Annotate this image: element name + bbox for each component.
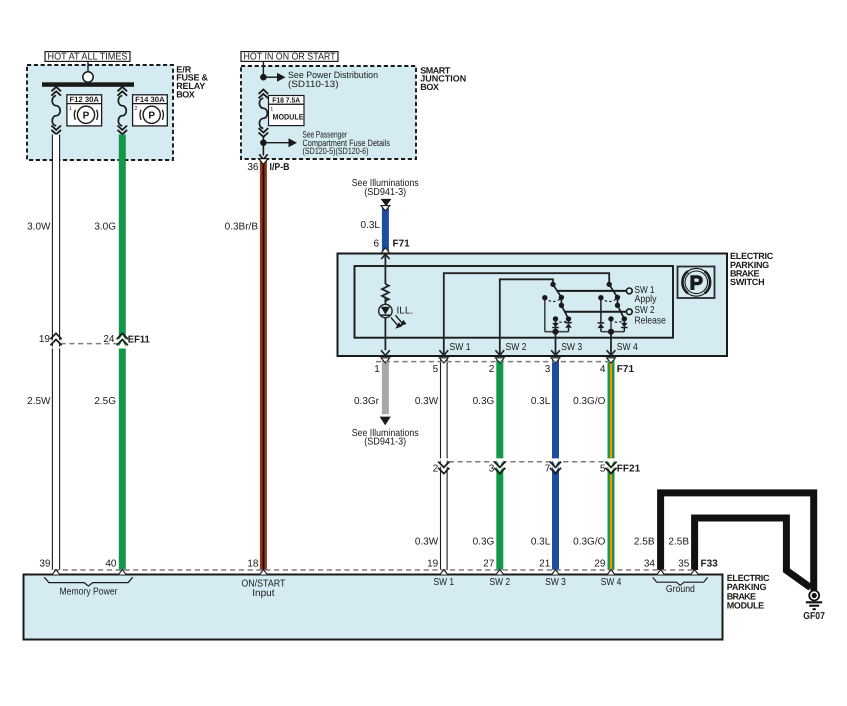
- svg-text:EF11: EF11: [128, 334, 150, 345]
- svg-text:29: 29: [594, 559, 606, 570]
- svg-text:39: 39: [39, 559, 51, 570]
- svg-text:SW 3: SW 3: [545, 577, 566, 588]
- svg-text:0.3G/O: 0.3G/O: [573, 536, 605, 547]
- svg-text:BOX: BOX: [176, 89, 195, 99]
- svg-text:GF07: GF07: [803, 611, 825, 622]
- svg-text:MODULE: MODULE: [273, 112, 304, 121]
- svg-text:SW 4: SW 4: [601, 577, 622, 588]
- svg-text:F12 30A: F12 30A: [69, 95, 99, 104]
- svg-text:HOT AT ALL TIMES: HOT AT ALL TIMES: [48, 51, 128, 62]
- svg-text:0.3L: 0.3L: [531, 396, 551, 407]
- svg-text:SW 1: SW 1: [450, 342, 471, 353]
- svg-text:F18 7.5A: F18 7.5A: [272, 95, 300, 104]
- svg-text:5: 5: [433, 364, 439, 375]
- svg-text:P: P: [690, 273, 703, 295]
- svg-text:3.0W: 3.0W: [27, 222, 51, 233]
- svg-text:SW 2: SW 2: [506, 342, 527, 353]
- svg-text:F71: F71: [393, 238, 411, 249]
- svg-text:40: 40: [105, 559, 117, 570]
- svg-text:ILL.: ILL.: [397, 306, 414, 317]
- svg-text:2.5G: 2.5G: [94, 396, 116, 407]
- svg-text:0.3L: 0.3L: [531, 536, 551, 547]
- svg-text:MODULE: MODULE: [727, 600, 765, 610]
- svg-text:F33: F33: [701, 559, 719, 570]
- svg-text:6: 6: [373, 238, 379, 249]
- svg-text:(SD941-3): (SD941-3): [364, 187, 406, 198]
- svg-text:2: 2: [489, 364, 495, 375]
- svg-text:Memory Power: Memory Power: [60, 586, 119, 597]
- svg-text:27: 27: [483, 559, 495, 570]
- svg-text:21: 21: [539, 559, 551, 570]
- svg-text:0.3G: 0.3G: [473, 536, 495, 547]
- svg-text:2: 2: [135, 106, 138, 112]
- svg-text:18: 18: [247, 559, 259, 570]
- svg-text:Apply: Apply: [635, 294, 657, 305]
- svg-text:4: 4: [600, 364, 606, 375]
- svg-text:34: 34: [644, 559, 656, 570]
- svg-text:0.3G/O: 0.3G/O: [573, 396, 605, 407]
- svg-text:1: 1: [69, 106, 72, 112]
- svg-text:3: 3: [545, 364, 551, 375]
- svg-text:0.3W: 0.3W: [415, 536, 439, 547]
- svg-text:(SD941-3): (SD941-3): [364, 436, 406, 447]
- svg-text:3: 3: [489, 464, 495, 475]
- svg-text:Input: Input: [252, 588, 274, 599]
- svg-text:0.3W: 0.3W: [415, 396, 439, 407]
- svg-text:SWITCH: SWITCH: [730, 277, 765, 287]
- svg-text:F71: F71: [617, 364, 635, 375]
- svg-text:19: 19: [39, 334, 51, 345]
- svg-text:2.5B: 2.5B: [634, 536, 655, 547]
- svg-text:2.5B: 2.5B: [668, 536, 689, 547]
- svg-text:0.3Gr: 0.3Gr: [354, 396, 380, 407]
- svg-text:SW 3: SW 3: [561, 342, 582, 353]
- svg-text:SW 1: SW 1: [434, 577, 455, 588]
- svg-text:24: 24: [103, 334, 115, 345]
- svg-text:SW 4: SW 4: [617, 342, 638, 353]
- svg-text:BOX: BOX: [420, 82, 439, 92]
- svg-text:3.0G: 3.0G: [94, 222, 116, 233]
- svg-text:FF21: FF21: [617, 464, 641, 475]
- svg-text:2.5W: 2.5W: [27, 396, 51, 407]
- svg-text:35: 35: [678, 559, 690, 570]
- svg-text:7: 7: [545, 464, 551, 475]
- svg-text:I/P-B: I/P-B: [270, 162, 290, 173]
- svg-text:19: 19: [427, 559, 439, 570]
- svg-text:5: 5: [600, 464, 606, 475]
- svg-text:HOT IN ON OR START: HOT IN ON OR START: [244, 51, 336, 62]
- svg-text:0.3L: 0.3L: [361, 220, 381, 231]
- svg-text:2: 2: [433, 464, 439, 475]
- svg-text:F14 30A: F14 30A: [135, 95, 165, 104]
- svg-text:0.3G: 0.3G: [473, 396, 495, 407]
- svg-text:1: 1: [374, 364, 380, 375]
- svg-text:(SD110-13): (SD110-13): [288, 79, 339, 89]
- svg-text:36: 36: [247, 162, 259, 173]
- svg-text:SW 2: SW 2: [490, 577, 511, 588]
- svg-text:0.3Br/B: 0.3Br/B: [225, 222, 259, 233]
- svg-text:(SD120-5)(SD120-6): (SD120-5)(SD120-6): [303, 146, 369, 156]
- svg-text:Release: Release: [635, 315, 667, 326]
